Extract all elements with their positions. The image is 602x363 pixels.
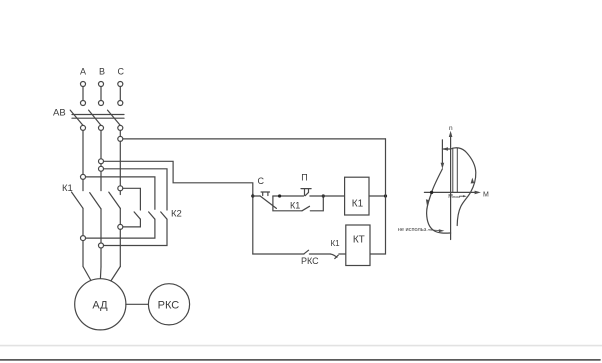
svg-text:К1: К1 <box>290 201 300 211</box>
wire phase A below breaker <box>82 130 84 174</box>
contactor K2 blade pole 1 <box>134 212 140 219</box>
svg-text:К1: К1 <box>352 199 364 210</box>
graph n axis <box>450 134 452 240</box>
svg-text:РКС: РКС <box>301 256 319 266</box>
svg-text:не использ.: не использ. <box>398 227 428 233</box>
graph braking vertical line <box>441 140 443 165</box>
graph M axis <box>424 191 477 193</box>
graph transition jump line <box>442 148 450 150</box>
terminal breaker output phase A <box>81 125 86 130</box>
svg-text:С: С <box>117 67 124 77</box>
wire phase C continues <box>119 141 121 185</box>
latch contact K1 blade <box>302 206 310 211</box>
terminal phase A lower <box>81 101 86 106</box>
terminal phase B upper <box>99 82 104 87</box>
wire K2 pole3 bottom <box>104 219 167 245</box>
svg-text:М: М <box>483 192 489 199</box>
svg-text:n: n <box>449 125 453 132</box>
speed relay RKS <box>148 284 189 325</box>
graph curve up arrow <box>471 178 475 184</box>
contactor K2 blade pole 3 <box>161 212 167 219</box>
wire phase A input <box>82 87 84 101</box>
terminal phase B lower <box>99 101 104 106</box>
wire start button to coil K1 <box>310 195 345 197</box>
graph braking curve arrow <box>426 199 429 205</box>
wire phase B to contact K1 <box>100 171 102 190</box>
wire phase C input <box>119 87 121 101</box>
node K2 return phase A <box>81 236 86 241</box>
svg-text:АВ: АВ <box>53 108 66 119</box>
graph motor characteristic curve <box>451 148 476 226</box>
wire control feed from phase B tap <box>104 161 253 194</box>
contactor K1 blade pole B <box>90 193 101 209</box>
node tap phase B upper <box>99 159 104 164</box>
wire latch branch left drop <box>273 196 302 211</box>
wire phase C below breaker <box>119 130 121 136</box>
node tap phase A <box>81 174 86 179</box>
svg-text:П: П <box>301 173 307 183</box>
node tap phase B lower <box>99 166 104 171</box>
wire coil K1 to right rail <box>369 195 386 197</box>
bottom border line <box>0 359 600 361</box>
svg-text:К1: К1 <box>331 239 341 248</box>
wire stop button to latch node <box>273 195 304 197</box>
wire right rail <box>370 139 386 254</box>
svg-text:К2: К2 <box>171 209 182 220</box>
wire latch branch right <box>310 196 323 211</box>
stop button C cap <box>261 192 269 196</box>
wire K2 pole1 top feed from phase C <box>123 188 140 210</box>
breaker AB blade pole C <box>108 110 121 125</box>
wire motor lead A <box>83 267 92 282</box>
breaker AB linkage bar <box>72 114 124 116</box>
contactor K1 blade pole A <box>72 192 84 208</box>
wire phase B below breaker <box>100 130 102 158</box>
wire RKS to K1 contact <box>309 253 330 255</box>
wire phase B below K1 <box>100 209 102 243</box>
node K2 bypass tap phase C upper <box>118 186 123 191</box>
wire to stop button <box>253 195 260 197</box>
terminal phase C upper <box>118 82 123 87</box>
wire K1 contact to coil KT <box>339 253 346 255</box>
wire motor lead C <box>111 267 121 282</box>
motor AD <box>75 279 126 330</box>
coil KT <box>346 225 370 266</box>
svg-text:КТ: КТ <box>353 235 365 246</box>
svg-text:С: С <box>258 176 265 186</box>
terminal phase A upper <box>81 82 86 87</box>
svg-text:В: В <box>99 67 105 77</box>
wire control left rail <box>252 194 254 254</box>
bottom border faint upper line <box>0 345 602 347</box>
stop button C blade <box>260 196 276 209</box>
node tap phase C control <box>118 136 123 141</box>
wire control supply from phase C <box>123 138 386 140</box>
wire K2 pole1 bottom <box>123 219 140 227</box>
contact K1 aux blade <box>330 254 338 259</box>
wire phase A to motor junction <box>82 241 84 267</box>
wire phase C to motor junction <box>119 229 121 266</box>
terminal breaker output phase B <box>99 125 104 130</box>
svg-text:Мном: Мном <box>448 194 460 200</box>
contactor K1 blade pole C <box>109 192 121 208</box>
svg-text:А: А <box>80 67 86 77</box>
node braking crosses M axis <box>430 191 433 194</box>
wire phase B input <box>100 87 102 101</box>
node latch right <box>322 194 325 197</box>
node stop button junction <box>251 194 254 197</box>
wire phase C below K1 <box>119 208 121 224</box>
terminal phase C lower <box>118 101 123 106</box>
coil K1 <box>345 177 369 215</box>
svg-text:АД: АД <box>92 300 108 312</box>
wire phase A to contact K1 <box>82 179 84 190</box>
wire K2 pole2 bottom <box>86 219 155 238</box>
wire K2 pole2 top feed from phase A <box>86 177 155 209</box>
wire motor lead B <box>99 267 102 279</box>
start button P blade <box>305 192 308 195</box>
wire phase A below K1 <box>82 208 84 235</box>
wire K2 pole3 top from corner <box>104 169 167 210</box>
node right rail K1 <box>384 194 387 197</box>
wire phase C stub below tap <box>119 191 121 195</box>
graph nominal torque drop lines <box>452 148 454 192</box>
wire phase B between taps <box>100 164 102 167</box>
terminal breaker output phase C <box>118 125 123 130</box>
svg-text:РКС: РКС <box>158 300 180 312</box>
wire lower branch <box>253 253 304 255</box>
wire phase B to motor junction <box>100 248 102 267</box>
graph braking curve <box>427 169 451 233</box>
contactor K2 blade pole 2 <box>149 212 155 219</box>
start button P cap <box>301 189 311 196</box>
node K2 return phase C <box>118 224 123 229</box>
contact RKS blade <box>304 250 309 254</box>
breaker AB blade pole A <box>70 110 83 125</box>
node latch left <box>278 194 281 197</box>
breaker AB blade pole B <box>89 110 101 125</box>
shaft link AD-RKS <box>126 303 149 305</box>
node K2 return phase B <box>99 243 104 248</box>
